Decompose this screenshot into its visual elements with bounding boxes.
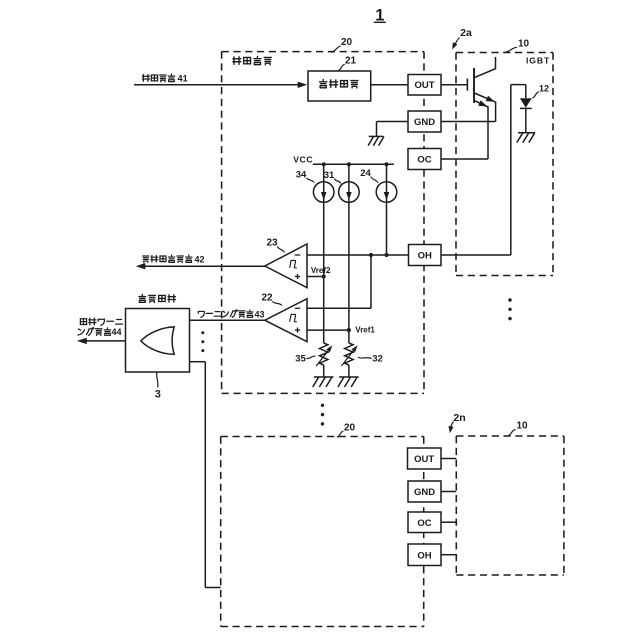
wire: warning from lower block to aggregation circuit <box>190 362 221 588</box>
label 駆動信号41 <box>142 73 187 83</box>
wire: comp22 - input branch from OH line <box>307 255 371 308</box>
wire: protection signal 42 output <box>136 263 265 269</box>
label 2a <box>452 27 472 50</box>
svg-text:43: 43 <box>255 309 265 319</box>
label 3 <box>155 372 161 400</box>
svg-text:OH: OH <box>417 550 431 561</box>
svg-text:32: 32 <box>372 354 383 365</box>
svg-text:31: 31 <box>324 170 335 181</box>
label 12 <box>532 84 549 98</box>
svg-text:10: 10 <box>518 39 530 50</box>
svg-text:20: 20 <box>341 37 353 48</box>
label 21 <box>338 56 356 71</box>
resistor 35 (thermistor) <box>316 343 332 366</box>
junction OH/comparator branch <box>369 253 373 257</box>
junction VCC/31 <box>347 162 351 166</box>
svg-text:24: 24 <box>360 168 371 179</box>
svg-text:10: 10 <box>516 421 528 432</box>
label 10 (IGBT module) <box>504 39 529 53</box>
junction OH/current source 24 <box>384 253 388 257</box>
wire: external warning signal 44 output <box>77 338 126 344</box>
pin box OUT (lower block) <box>408 448 442 469</box>
wire: thermistor 32 to ground <box>348 365 350 377</box>
lower IGBT module box 2n (dashed) <box>456 436 564 575</box>
label 集約回路 <box>139 294 176 302</box>
dots: more warning inputs <box>201 331 204 352</box>
wire: current source 31 output (Vref1 rail) <box>348 164 350 343</box>
ground (thermistor 32) <box>338 377 359 387</box>
label 35 <box>295 353 315 364</box>
pin box OH (lower block) <box>408 544 441 566</box>
label 34 <box>296 169 314 182</box>
wire: comp22 + input to Vref1 <box>307 329 349 331</box>
svg-text:20: 20 <box>344 423 356 434</box>
dots: more drive circuits (below 2a) <box>508 298 511 320</box>
label 2n <box>449 412 466 434</box>
svg-text:12: 12 <box>539 84 549 94</box>
wire: lower OC stub <box>441 521 456 523</box>
label 保護動作信号42 <box>143 254 205 264</box>
svg-text:21: 21 <box>345 56 357 67</box>
IGBT module box 2a (dashed) <box>456 53 553 276</box>
wire: current source 24 output to OH line <box>386 164 388 255</box>
dots: more drive circuits (above lower block) <box>321 404 324 426</box>
wire: lower OUT stub <box>441 458 456 460</box>
svg-text:42: 42 <box>195 254 205 264</box>
wire: thermistor 35 to ground <box>323 365 325 377</box>
lower drive circuit box 20 (dashed) <box>221 437 424 627</box>
svg-text:2n: 2n <box>453 412 465 424</box>
svg-text:OC: OC <box>417 518 431 529</box>
label 31 <box>324 170 341 184</box>
pin box OC (lower block) <box>408 512 441 533</box>
wire: GND box to ground symbol <box>377 122 409 137</box>
wire: lower GND stub <box>441 491 456 493</box>
label 駆動回路 (drive circuit) <box>233 56 271 64</box>
wire: OC box to IGBT sense emitter <box>441 158 488 160</box>
wire: GND box to IGBT emitter <box>441 121 496 123</box>
svg-text:44: 44 <box>112 327 122 337</box>
svg-text:Vref2: Vref2 <box>311 266 331 275</box>
node Vref2 <box>311 266 331 279</box>
wire: OUT to IGBT gate <box>441 84 467 86</box>
svg-text:VCC: VCC <box>293 155 313 165</box>
op-amp comparator 23 <box>265 244 307 288</box>
label 32 <box>358 354 383 365</box>
wire: drive signal 41 input <box>134 82 307 88</box>
output circuit box 21 (出力回路) <box>308 71 371 101</box>
svg-text:Vref1: Vref1 <box>355 325 375 334</box>
label IGBT <box>526 56 550 66</box>
label 23 <box>266 238 284 253</box>
svg-text:3: 3 <box>155 389 161 401</box>
drive circuit block box 20 (dashed) <box>222 52 424 394</box>
label 24 <box>360 168 378 183</box>
title 1 <box>374 7 386 25</box>
transistor: IGBT (in module 2a) <box>467 57 495 159</box>
ground (thermistor 35) <box>313 377 334 387</box>
svg-text:2a: 2a <box>460 27 472 39</box>
current source 31 <box>339 182 360 203</box>
diode 12 (temperature sense) <box>520 98 532 133</box>
junction VCC/24 <box>384 162 388 166</box>
svg-text:35: 35 <box>295 353 306 364</box>
pin box OUT (top block) <box>408 75 441 96</box>
node Vref1 <box>347 325 376 334</box>
aggregation circuit box 3 (集約回路) <box>126 309 190 373</box>
wire: warning signal 43 to aggregation circuit <box>190 319 265 321</box>
wire: OH line (comp23 - input to OH pin) <box>307 254 409 256</box>
svg-text:IGBT: IGBT <box>526 56 550 66</box>
svg-text:OUT: OUT <box>414 454 434 465</box>
ground (diode cathode) <box>517 133 535 143</box>
ground (drive circuit GND) <box>368 136 384 145</box>
wire: output circuit to OUT pin <box>371 84 408 86</box>
svg-text:22: 22 <box>261 293 273 304</box>
svg-text:34: 34 <box>296 169 307 180</box>
svg-text:OH: OH <box>418 251 432 262</box>
label 22 <box>261 293 281 306</box>
svg-text:23: 23 <box>266 238 278 249</box>
svg-text:OC: OC <box>417 155 431 166</box>
wire: OH to diode anode <box>441 85 526 255</box>
pin box GND (lower block) <box>408 481 441 502</box>
svg-text:41: 41 <box>178 73 188 83</box>
wire: VCC rail <box>313 163 394 165</box>
wire: current source 34 output (Vref2 rail) <box>323 164 325 343</box>
label 20 <box>331 37 352 52</box>
label ワーニング信号43 <box>198 309 264 319</box>
wire: comp23 + input to Vref2 <box>307 276 324 278</box>
current source 34 <box>313 182 334 203</box>
label 20 (lower) <box>337 423 356 438</box>
pin box OC (top block) <box>408 149 441 170</box>
svg-text:GND: GND <box>414 117 435 128</box>
node VCC <box>293 155 313 165</box>
OR gate U3 <box>141 327 174 354</box>
label 10 (lower module) <box>508 421 528 436</box>
pin box GND (top block) <box>408 111 441 132</box>
current source 24 <box>376 182 397 203</box>
svg-text:GND: GND <box>414 487 435 498</box>
label 外部ワーニング信号44 <box>78 318 123 337</box>
wire: lower OH stub <box>441 554 456 556</box>
svg-text:OUT: OUT <box>414 80 434 91</box>
pin box OH (top block) <box>409 245 442 266</box>
junction VCC/34 <box>322 162 326 166</box>
resistor 32 (thermistor) <box>341 343 357 366</box>
op-amp comparator 22 <box>265 299 307 342</box>
